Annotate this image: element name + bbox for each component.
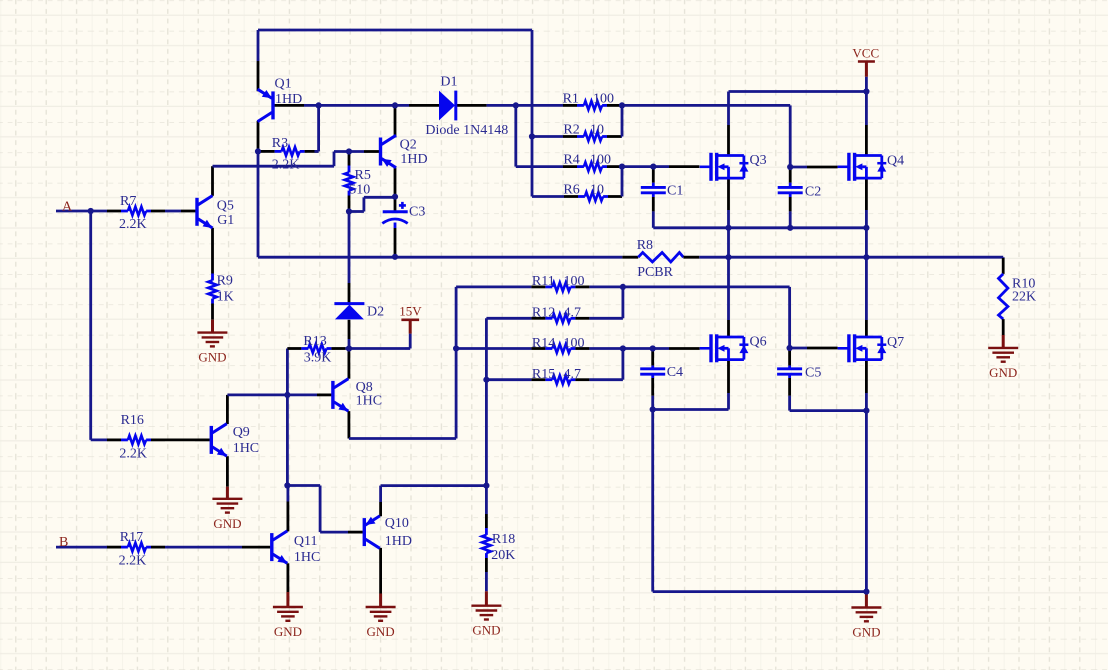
svg-text:B: B xyxy=(59,535,68,550)
svg-text:Q5: Q5 xyxy=(217,198,234,213)
svg-text:R16: R16 xyxy=(121,413,144,428)
svg-text:1HC: 1HC xyxy=(233,441,259,456)
svg-text:4.7: 4.7 xyxy=(564,367,582,382)
svg-text:Q1: Q1 xyxy=(275,76,292,91)
svg-text:100: 100 xyxy=(593,91,614,106)
svg-text:C5: C5 xyxy=(805,366,821,381)
svg-text:D1: D1 xyxy=(440,75,457,90)
svg-text:2.2K: 2.2K xyxy=(119,217,147,232)
svg-text:Q11: Q11 xyxy=(294,534,318,549)
svg-text:R9: R9 xyxy=(217,273,233,288)
svg-text:R5: R5 xyxy=(355,168,371,183)
svg-text:15V: 15V xyxy=(399,304,422,319)
svg-text:10: 10 xyxy=(590,183,604,198)
svg-text:1HD: 1HD xyxy=(275,92,302,107)
svg-text:R3: R3 xyxy=(272,136,288,151)
svg-text:GND: GND xyxy=(852,625,880,640)
svg-text:GND: GND xyxy=(989,365,1017,380)
svg-text:1HD: 1HD xyxy=(385,534,412,549)
svg-text:3.9K: 3.9K xyxy=(304,351,332,366)
svg-text:10: 10 xyxy=(590,122,604,137)
svg-text:C3: C3 xyxy=(409,204,425,219)
svg-text:R4: R4 xyxy=(563,153,579,168)
svg-text:Diode 1N4148: Diode 1N4148 xyxy=(425,123,508,138)
svg-text:R15: R15 xyxy=(532,367,555,382)
svg-text:Q7: Q7 xyxy=(887,335,904,350)
svg-text:4.7: 4.7 xyxy=(564,306,582,321)
svg-text:GND: GND xyxy=(472,623,500,638)
svg-text:D2: D2 xyxy=(367,304,384,319)
svg-text:2.2K: 2.2K xyxy=(119,554,147,569)
svg-text:GND: GND xyxy=(367,624,395,639)
svg-text:22K: 22K xyxy=(1012,290,1036,305)
svg-text:R7: R7 xyxy=(120,194,136,209)
svg-text:R8: R8 xyxy=(637,238,653,253)
svg-text:VCC: VCC xyxy=(852,46,879,61)
svg-text:Q10: Q10 xyxy=(385,516,409,531)
svg-text:GND: GND xyxy=(213,516,241,531)
svg-text:A: A xyxy=(62,200,73,215)
svg-text:C4: C4 xyxy=(667,365,683,380)
svg-text:Q4: Q4 xyxy=(887,154,904,169)
svg-text:C1: C1 xyxy=(667,184,683,199)
svg-text:1HC: 1HC xyxy=(356,393,382,408)
svg-text:PCBR: PCBR xyxy=(637,265,673,280)
svg-text:R14: R14 xyxy=(532,336,555,351)
svg-text:100: 100 xyxy=(564,336,585,351)
svg-text:100: 100 xyxy=(590,153,611,168)
svg-text:G1: G1 xyxy=(217,213,234,228)
svg-text:Q2: Q2 xyxy=(400,138,417,153)
svg-text:GND: GND xyxy=(198,350,226,365)
svg-text:Q9: Q9 xyxy=(233,425,250,440)
svg-text:2.2K: 2.2K xyxy=(119,447,147,462)
svg-text:R11: R11 xyxy=(532,274,555,289)
svg-text:R17: R17 xyxy=(120,530,143,545)
svg-text:2.2K: 2.2K xyxy=(272,158,300,173)
svg-text:Q6: Q6 xyxy=(750,335,767,350)
svg-text:R2: R2 xyxy=(563,122,579,137)
svg-text:R18: R18 xyxy=(492,532,515,547)
svg-text:C2: C2 xyxy=(805,185,821,200)
svg-text:100: 100 xyxy=(564,274,585,289)
svg-text:GND: GND xyxy=(274,624,302,639)
svg-text:510: 510 xyxy=(349,183,370,198)
svg-text:1K: 1K xyxy=(217,290,234,305)
svg-text:1HC: 1HC xyxy=(294,550,320,565)
svg-text:R1: R1 xyxy=(563,91,579,106)
svg-text:20K: 20K xyxy=(491,548,515,563)
svg-text:Q3: Q3 xyxy=(750,153,767,168)
svg-text:1HD: 1HD xyxy=(400,152,427,167)
svg-text:R6: R6 xyxy=(563,183,579,198)
svg-text:R12: R12 xyxy=(532,306,555,321)
svg-text:R13: R13 xyxy=(303,334,326,349)
